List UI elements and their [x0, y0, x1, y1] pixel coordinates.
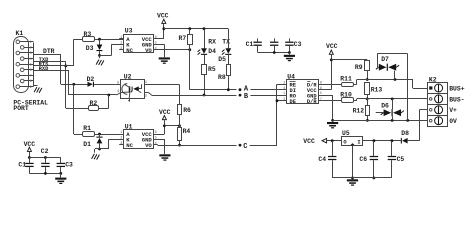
- power VCC arrow (PC side): [27, 147, 31, 151]
- wire U4 GND down: [332, 95, 334, 120]
- resistor R4: [178, 128, 182, 141]
- svg-text:D3: D3: [86, 45, 94, 52]
- resistor R10: [342, 98, 354, 103]
- optocoupler U3 pin stubs left: [119, 38, 123, 40]
- capacitor C3 (PC): [60, 158, 62, 163]
- svg-text:C3: C3: [65, 161, 73, 168]
- wire R13 to line B: [367, 95, 369, 99]
- diode D3: [97, 45, 103, 51]
- wire VCC line to R6/R4: [164, 125, 179, 127]
- optocoupler U1 box: [124, 130, 154, 149]
- ground (U5): [347, 179, 358, 181]
- connector K1 pin 8 circle: [20, 79, 24, 83]
- wire D8 to K2 V+: [408, 140, 420, 142]
- svg-text:1: 1: [120, 36, 122, 40]
- svg-text:7: 7: [30, 75, 32, 79]
- wire VCC arrow down: [164, 120, 166, 134]
- svg-text:0V: 0V: [449, 118, 457, 125]
- TVS D7: [379, 64, 387, 71]
- svg-text:4: 4: [117, 90, 119, 94]
- svg-text:VO: VO: [145, 142, 152, 149]
- transceiver U4 box: [287, 80, 319, 104]
- capacitor C5: [391, 141, 393, 156]
- wire U2 pin1 to R6: [148, 83, 150, 85]
- svg-text:BUS+: BUS+: [449, 85, 465, 92]
- LED D5: [225, 48, 231, 54]
- wire U3 GND to ground: [164, 44, 166, 57]
- wire R8 to line A: [228, 76, 230, 90]
- wire line A to U4 DI: [250, 89, 287, 91]
- svg-text:C2: C2: [41, 148, 49, 155]
- svg-text:4: 4: [283, 87, 285, 91]
- connector K1 pin 9 stub: [20, 86, 34, 88]
- svg-text:C5: C5: [397, 156, 405, 163]
- wire U5 GND down: [352, 145, 354, 178]
- svg-text:U3: U3: [125, 28, 133, 35]
- wire node to D3: [99, 39, 101, 44]
- svg-text:4: 4: [155, 142, 157, 146]
- wire TXD drop to R2: [65, 62, 67, 108]
- svg-text:D5: D5: [218, 56, 226, 63]
- svg-text:R9: R9: [355, 64, 363, 71]
- optocoupler U1 pin stubs right: [154, 134, 165, 136]
- ground (D3): [96, 60, 99, 65]
- power VCC arrow (U1 area): [162, 116, 166, 120]
- wire U4 A to R11: [323, 84, 341, 86]
- connector K1 pin 1 circle: [16, 40, 20, 44]
- wire D3 to K node: [99, 51, 101, 55]
- wire line B to U4 RO: [250, 95, 287, 97]
- svg-text:R6: R6: [183, 107, 191, 114]
- wire 0V line to K2: [333, 120, 428, 122]
- svg-text:2: 2: [120, 137, 122, 141]
- svg-text:PORT: PORT: [13, 105, 29, 112]
- svg-text:6: 6: [155, 131, 157, 135]
- svg-text:D6: D6: [381, 103, 389, 110]
- svg-text:5: 5: [320, 92, 322, 96]
- capacitor C1 (PC): [29, 158, 31, 163]
- svg-text:VCC: VCC: [303, 138, 315, 145]
- wire VCC line to R4: [179, 126, 181, 128]
- regulator U5 GND tab: [350, 143, 354, 145]
- wire D2 line left: [61, 84, 88, 86]
- wire VCC rail: [164, 28, 229, 30]
- wire cap bottom rail: [29, 173, 60, 175]
- wire R9 to line A: [367, 70, 369, 79]
- wire R1 left: [74, 134, 82, 136]
- svg-text:2: 2: [30, 47, 32, 51]
- optocoupler U1 pin stubs left: [119, 134, 123, 136]
- power VCC arrow: [162, 19, 166, 23]
- wire bottom rail: [332, 177, 392, 179]
- capacitor C3: [289, 38, 291, 41]
- svg-text:K1: K1: [16, 30, 24, 37]
- svg-text:RX: RX: [208, 38, 216, 45]
- optocoupler U3 box: [124, 35, 154, 53]
- transceiver U4 pin stubs right: [319, 84, 323, 86]
- resistor R11: [342, 83, 354, 87]
- optocoupler U2 box: [121, 80, 145, 99]
- connector K1 pin 5 circle: [16, 62, 20, 66]
- resistor R6: [178, 105, 182, 115]
- wire R4 to line C: [179, 140, 181, 145]
- wire R1 to U1 A: [95, 134, 124, 136]
- diode D1: [96, 137, 102, 138]
- svg-text:R5: R5: [208, 66, 216, 73]
- wire line B to D6: [392, 99, 394, 109]
- optocoupler U2 phototransistor: [122, 84, 127, 95]
- ground (D1/U1 K): [92, 154, 95, 159]
- connector K2 cell divider: [428, 104, 448, 106]
- resistor R2: [89, 106, 99, 111]
- optocoupler U2 pin stubs: [116, 84, 121, 86]
- svg-text:3: 3: [283, 98, 285, 102]
- svg-text:V+: V+: [449, 107, 457, 114]
- capacitor C1: [257, 38, 259, 41]
- wire VCC to U4: [331, 55, 333, 90]
- connector K1 pin 8 stub: [24, 80, 34, 82]
- wire DTR: [34, 54, 62, 56]
- wire R7 to VO node: [189, 45, 191, 50]
- wire U1 K return: [109, 139, 124, 141]
- wire U4 B to R10: [323, 100, 341, 102]
- svg-text:C: C: [243, 143, 247, 151]
- svg-text:R7: R7: [179, 35, 187, 42]
- svg-text:DE: DE: [290, 99, 297, 105]
- svg-text:DTR: DTR: [43, 48, 55, 55]
- wire R2 to RXD line: [99, 108, 109, 110]
- wire RTS riser to R3: [73, 39, 75, 66]
- connector K2 pin 1 pad: [429, 86, 432, 89]
- svg-text:R8: R8: [218, 74, 226, 81]
- svg-text:8: 8: [30, 80, 32, 84]
- LED D4: [201, 48, 207, 54]
- wire rail to R7: [189, 29, 191, 35]
- ground (U4 GND / 0V): [327, 122, 338, 124]
- ground (PC caps): [55, 178, 66, 180]
- svg-text:D8: D8: [401, 130, 409, 137]
- connector K1 pin 7 stub: [20, 75, 34, 77]
- node C junction: [239, 144, 242, 147]
- connector K1 pin 1 stub: [20, 41, 34, 43]
- ground (U1 GND): [159, 154, 170, 156]
- svg-text:6: 6: [155, 36, 157, 40]
- wire R11 to line A: [353, 84, 356, 86]
- svg-text:C4: C4: [318, 156, 326, 163]
- wire line C to U4 RE/DE: [250, 145, 277, 147]
- wire D6 to 0V: [392, 116, 394, 120]
- wire VCC branch to R9: [331, 59, 367, 61]
- connector K2 box: [428, 83, 448, 127]
- svg-text:3: 3: [120, 47, 122, 51]
- resistor R13: [365, 83, 370, 95]
- wire rail corner to D5: [228, 29, 230, 49]
- capacitor C2: [274, 38, 276, 41]
- svg-text:D/R: D/R: [307, 99, 317, 105]
- svg-text:4: 4: [30, 58, 32, 62]
- connector K2 terminal screw 3: [435, 106, 443, 114]
- transceiver U4 pin stubs left: [283, 84, 287, 86]
- wire DTR drop to D2 line: [60, 54, 62, 84]
- svg-text:3: 3: [120, 142, 122, 146]
- wire U2 pin2 line B: [149, 93, 152, 96]
- svg-text:2: 2: [120, 41, 122, 45]
- resistor R12: [366, 106, 370, 116]
- svg-text:4: 4: [155, 47, 157, 51]
- svg-text:R13: R13: [371, 87, 383, 94]
- svg-text:D7: D7: [381, 56, 389, 63]
- connector K1 pin 5 stub: [20, 64, 34, 66]
- svg-text:1: 1: [120, 131, 122, 135]
- regulator U5 box: [342, 137, 363, 146]
- svg-text:VO: VO: [145, 47, 152, 54]
- wire VCC arrow to U3 VCC pin: [163, 24, 165, 39]
- wire RXD: [34, 70, 70, 72]
- svg-text:6: 6: [320, 81, 322, 85]
- wire line A to K2 BUS+: [367, 79, 413, 81]
- connector K1 pin 4 stub: [24, 58, 34, 60]
- connector K1 pin bus: [33, 43, 35, 87]
- svg-text:BUS-: BUS-: [449, 96, 464, 103]
- svg-text:C1: C1: [18, 161, 26, 168]
- wire D1 to return line: [99, 143, 101, 149]
- svg-text:R12: R12: [353, 107, 365, 114]
- svg-text:VCC: VCC: [326, 43, 338, 50]
- capacitor C2 (PC): [45, 158, 47, 163]
- wire K node to U3 K: [100, 55, 112, 57]
- wire TXD: [34, 61, 66, 63]
- wire line B to R12: [367, 99, 369, 105]
- svg-text:VCC: VCC: [157, 12, 169, 19]
- svg-text:R4: R4: [183, 128, 191, 135]
- svg-text:C3: C3: [294, 41, 302, 48]
- capacitor C6: [373, 141, 375, 156]
- node B junction: [239, 94, 242, 97]
- resistor R5: [202, 65, 207, 75]
- svg-text:VCC: VCC: [159, 109, 171, 116]
- wire R10 to line B: [353, 100, 356, 102]
- connector K2 pin 4 pad: [429, 119, 432, 122]
- connector K1 pin 6 circle: [20, 68, 24, 72]
- power VCC tag arrow: [322, 139, 327, 143]
- resistor R9: [365, 61, 370, 71]
- wire D2 to U2 pin 5: [94, 84, 116, 86]
- svg-text:7: 7: [320, 98, 322, 102]
- wire U5 input line: [363, 140, 401, 142]
- wire VCC tag to U5: [327, 140, 342, 142]
- svg-text:8: 8: [320, 87, 322, 91]
- wire rail to D4: [204, 29, 206, 49]
- wire D5 to R8: [228, 55, 230, 65]
- ground (C1-C3): [284, 55, 295, 57]
- resistor R8: [227, 65, 231, 76]
- TVS D6: [384, 109, 392, 116]
- connector K2 terminal screw 4: [435, 117, 443, 125]
- wire D7 to line A: [394, 71, 396, 80]
- wire RXD drop to U2 pin 4: [68, 71, 70, 96]
- connector K1 pin 2 circle: [20, 46, 24, 50]
- connector K1 pin 6 stub: [24, 69, 34, 71]
- svg-text:R11: R11: [340, 76, 352, 83]
- ground (U3 GND): [159, 57, 170, 59]
- wire R12 to 0V line: [367, 116, 369, 121]
- wire R5 to line B: [204, 75, 206, 96]
- svg-text:6: 6: [30, 69, 32, 73]
- svg-text:9: 9: [30, 86, 32, 90]
- connector K2 cell divider: [428, 115, 448, 117]
- svg-text:5: 5: [155, 137, 157, 141]
- connector K1 pin 7 circle: [16, 74, 20, 78]
- connector K1 pin 9 circle: [16, 85, 20, 89]
- svg-text:NC: NC: [126, 142, 133, 149]
- wire R6 to VCC line: [179, 115, 181, 126]
- svg-text:1: 1: [30, 41, 32, 45]
- svg-text:3: 3: [30, 52, 32, 56]
- connector K1 pin 3 circle: [16, 51, 20, 55]
- connector K1 pin 3 stub: [20, 52, 34, 54]
- wire D4 to R5: [204, 55, 206, 64]
- wire VCC to cap rail: [29, 152, 31, 158]
- connector K1 pin 2 stub: [24, 47, 34, 49]
- power VCC arrow (driver): [329, 50, 333, 54]
- diode D2: [88, 82, 93, 87]
- svg-text:5: 5: [30, 63, 32, 67]
- svg-text:D4: D4: [208, 48, 216, 55]
- wire U1 VO line C: [154, 144, 158, 146]
- wire return to ground: [94, 149, 96, 153]
- svg-text:I: I: [357, 139, 360, 145]
- svg-text:1: 1: [283, 92, 285, 96]
- capacitor C4: [332, 141, 334, 156]
- connector K2 pin 3 pad: [429, 109, 432, 112]
- connector K1 DB9 body: [14, 37, 29, 93]
- svg-text:NC: NC: [126, 47, 133, 54]
- wire rail to ground: [60, 173, 62, 177]
- wire U3 VO line: [154, 49, 190, 51]
- resistor R7: [188, 35, 193, 45]
- wire caps bottom rail: [258, 52, 290, 54]
- connector K2 terminal screw 1: [435, 84, 443, 92]
- wire U1 GND to ground: [164, 139, 166, 154]
- wire RTS node down to R1: [73, 84, 75, 134]
- svg-text:C1: C1: [246, 41, 254, 48]
- wire rail to ground: [289, 53, 291, 55]
- optocoupler U2 emitter pin: [128, 92, 131, 99]
- connector K1 pin 4 circle: [20, 57, 24, 61]
- diode D8: [401, 138, 402, 144]
- svg-text:2: 2: [283, 81, 285, 85]
- wire VO node down to line A: [189, 50, 191, 90]
- connector K2 pin 2 pad: [429, 98, 432, 101]
- svg-text:D1: D1: [83, 141, 91, 148]
- svg-text:C6: C6: [359, 156, 367, 163]
- svg-text:5: 5: [155, 41, 157, 45]
- wire RTS: [34, 65, 74, 67]
- wire RE tie to DE: [277, 84, 283, 86]
- connector K2 cell divider: [428, 93, 448, 95]
- ground (DB9 shell): [34, 85, 38, 87]
- optocoupler U3 pin stubs right: [154, 38, 164, 40]
- wire D7 left loop to 0V: [377, 67, 379, 69]
- wire K node to ground: [99, 55, 101, 58]
- wire line B to K2 BUS-: [367, 98, 427, 100]
- optocoupler U2 LED: [132, 87, 133, 92]
- wire R3 to U3 A: [95, 39, 124, 41]
- wire D6 left stub: [376, 112, 384, 114]
- optocoupler U2 internal LED wiring: [139, 88, 142, 90]
- wire RTS to R3: [74, 39, 82, 41]
- node A junction: [239, 88, 242, 91]
- resistor R3: [83, 37, 95, 42]
- connector K2 terminal screw 2: [435, 95, 443, 103]
- wire cap top rail: [29, 157, 60, 159]
- wire node to D1: [99, 134, 101, 137]
- resistor R1: [83, 132, 95, 137]
- svg-text:2: 2: [145, 94, 147, 98]
